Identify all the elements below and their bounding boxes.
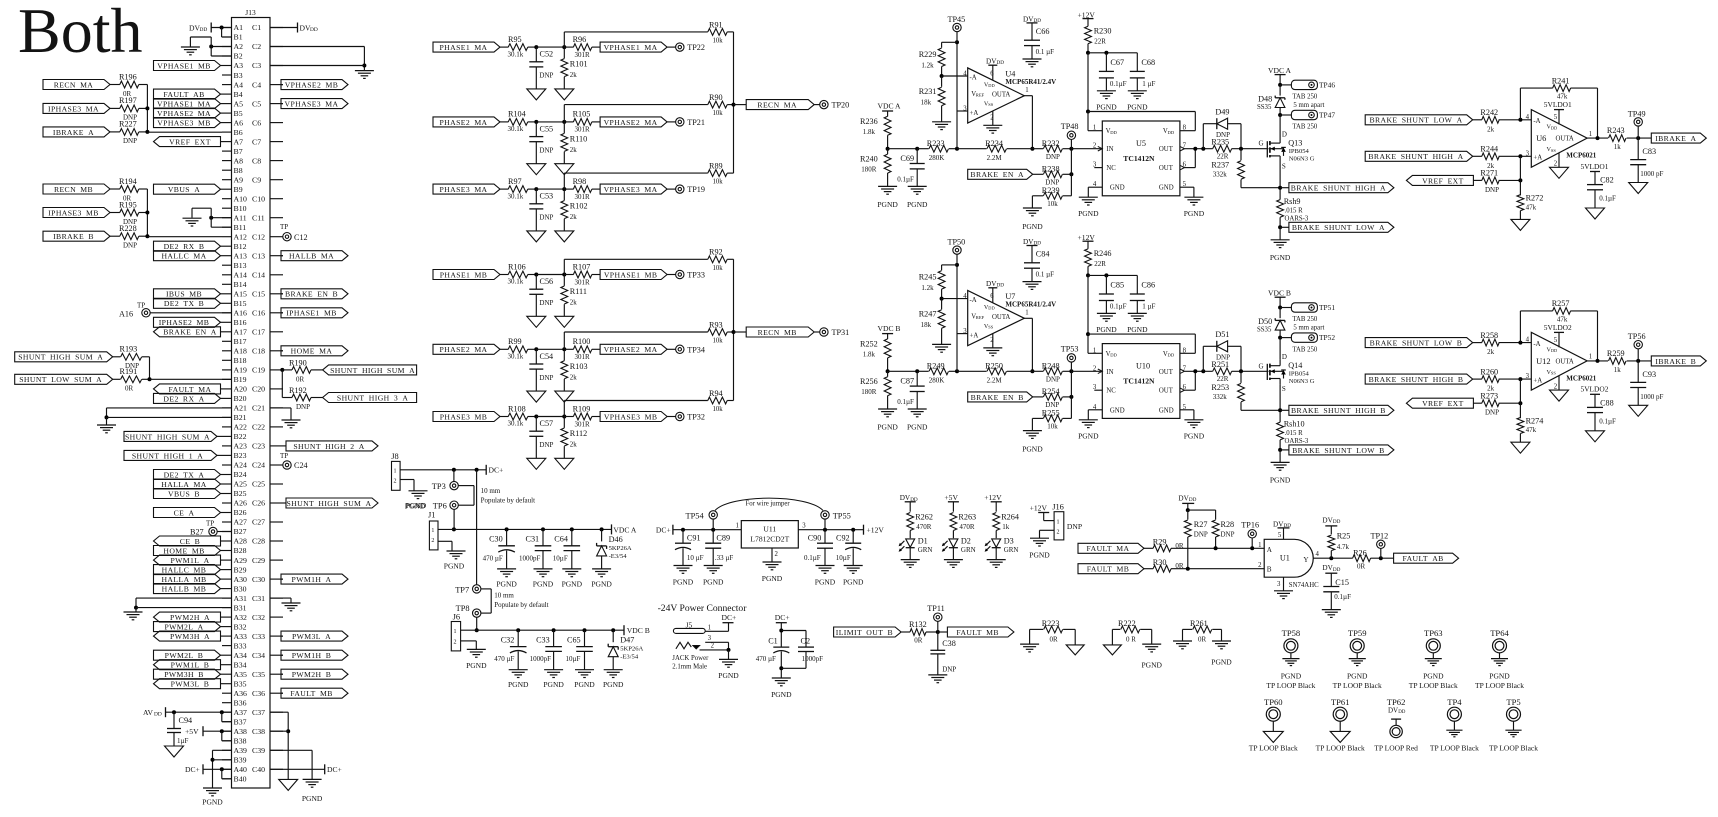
wire J16 pin2 to PGND bbox=[1040, 530, 1055, 538]
svg-text:R95: R95 bbox=[508, 35, 522, 44]
svg-text:C33: C33 bbox=[252, 632, 265, 641]
svg-text:RECN MB: RECN MB bbox=[54, 185, 93, 194]
svg-text:R191: R191 bbox=[120, 367, 138, 376]
net flag SHUNT HIGH 1 A at J13 B23 bbox=[124, 450, 222, 460]
svg-text:+12V: +12V bbox=[867, 526, 885, 535]
ground triangle under TP61 bbox=[1316, 731, 1365, 752]
wire R191 to B19 bbox=[150, 378, 232, 380]
wire TP3-TP6 bracket bbox=[458, 486, 474, 506]
svg-text:10 mm: 10 mm bbox=[481, 487, 501, 495]
ground PGND under C67 bbox=[1096, 91, 1117, 112]
svg-text:C10: C10 bbox=[252, 194, 265, 203]
svg-text:R234: R234 bbox=[985, 139, 1003, 148]
svg-text:R255: R255 bbox=[1042, 409, 1060, 418]
test point tab TP52 bbox=[1280, 333, 1335, 353]
svg-text:Populate by default: Populate by default bbox=[481, 496, 535, 504]
svg-text:PHASE1 MB: PHASE1 MB bbox=[440, 270, 488, 279]
net flag IPHASE2 MB at J13 B16 bbox=[154, 317, 223, 327]
svg-text:0R: 0R bbox=[1050, 635, 1059, 643]
svg-text:VDC A: VDC A bbox=[878, 101, 902, 110]
ground PGND at J8 bbox=[406, 491, 428, 510]
svg-text:IBRAKE B: IBRAKE B bbox=[53, 232, 94, 241]
svg-text:PGND: PGND bbox=[591, 579, 612, 588]
resistor R108 bbox=[500, 404, 536, 427]
svg-text:C87: C87 bbox=[900, 377, 914, 386]
svg-text:R27: R27 bbox=[1194, 520, 1208, 529]
test point TP8 bbox=[456, 604, 481, 618]
svg-text:DNP: DNP bbox=[1485, 186, 1499, 194]
wire TP8 to J6 rail bbox=[475, 617, 479, 632]
svg-text:0.1µF: 0.1µF bbox=[1110, 303, 1127, 311]
svg-text:DD: DD bbox=[988, 306, 994, 311]
ground triangle under TP60 bbox=[1249, 731, 1298, 752]
connector J5 jack bbox=[672, 620, 714, 670]
svg-text:A8: A8 bbox=[234, 156, 244, 165]
wire VDC junction bbox=[886, 147, 890, 151]
wire AVdd to A37/B37 bbox=[166, 710, 232, 722]
wire R91 input bbox=[564, 32, 708, 47]
net flag BRAKE SHUNT LOW A bbox=[1280, 222, 1394, 232]
wire TP48 node bbox=[1069, 147, 1102, 151]
ground PGND under C39 bbox=[302, 779, 323, 803]
net flag SHUNT HIGH SUM A at R190 bbox=[323, 365, 417, 375]
svg-text:C56: C56 bbox=[540, 277, 554, 286]
svg-text:A3: A3 bbox=[234, 61, 244, 70]
ground triangle under C55 bbox=[527, 164, 546, 175]
svg-text:PWM1L A: PWM1L A bbox=[170, 556, 209, 565]
svg-text:TP LOOP Black: TP LOOP Black bbox=[1249, 744, 1298, 753]
ground triangle under R102 bbox=[555, 231, 574, 242]
net flag FAULT MB bbox=[1078, 564, 1144, 574]
svg-text:VPHASE2 MA: VPHASE2 MA bbox=[604, 345, 658, 354]
svg-text:R227: R227 bbox=[119, 120, 137, 129]
svg-text:R99: R99 bbox=[508, 337, 522, 346]
diode D49 DNP bbox=[1203, 108, 1241, 149]
svg-text:-A: -A bbox=[970, 74, 977, 81]
wire C21 to ground bbox=[270, 408, 291, 420]
svg-text:B16: B16 bbox=[234, 318, 247, 327]
net flag HALLB MB at J13 B30 bbox=[154, 584, 223, 594]
net flag DE2 RX B at J13 B12 bbox=[154, 241, 223, 251]
svg-text:TP12: TP12 bbox=[1371, 532, 1389, 541]
svg-text:470 µF: 470 µF bbox=[494, 655, 514, 663]
svg-text:C28: C28 bbox=[252, 537, 265, 546]
svg-text:DD: DD bbox=[154, 712, 162, 718]
svg-text:PGND: PGND bbox=[762, 574, 783, 583]
svg-text:3: 3 bbox=[802, 522, 806, 529]
test point TP11 bbox=[927, 604, 944, 632]
svg-text:PGND: PGND bbox=[1270, 253, 1291, 262]
svg-text:IN: IN bbox=[1106, 369, 1113, 376]
wire U10 pin4 to PGND bbox=[1078, 410, 1102, 441]
ground triangle under R110 bbox=[555, 164, 574, 175]
svg-text:VPHASE1 MB: VPHASE1 MB bbox=[604, 270, 658, 279]
svg-text:Y: Y bbox=[1303, 556, 1309, 564]
svg-text:VPHASE1 MA: VPHASE1 MA bbox=[157, 100, 211, 109]
svg-text:30.1k: 30.1k bbox=[508, 278, 524, 286]
svg-text:B5: B5 bbox=[234, 109, 243, 118]
capacitor C82 0.1uF bbox=[1587, 176, 1616, 209]
capacitor C94 bbox=[167, 712, 192, 746]
svg-text:R231: R231 bbox=[919, 87, 937, 96]
svg-text:22R: 22R bbox=[1217, 375, 1229, 383]
net flag HALLB MA at J13 C13 bbox=[281, 251, 348, 261]
connector J13 bbox=[232, 8, 271, 788]
svg-text:SN74AHC: SN74AHC bbox=[1289, 582, 1319, 589]
test point TP12 bbox=[1371, 532, 1389, 559]
wire junction 1 bbox=[534, 347, 564, 351]
svg-text:5: 5 bbox=[1278, 532, 1282, 539]
svg-text:DD: DD bbox=[310, 27, 318, 33]
svg-text:SS: SS bbox=[1551, 371, 1556, 376]
svg-text:DNP: DNP bbox=[539, 146, 553, 154]
gate U1 SN74AHC bbox=[1258, 532, 1319, 589]
svg-text:PGND: PGND bbox=[1184, 209, 1205, 218]
svg-text:0.1µF: 0.1µF bbox=[1110, 80, 1127, 88]
svg-text:VREF EXT: VREF EXT bbox=[1422, 399, 1464, 408]
resistor R102 2k bbox=[561, 189, 588, 231]
ground PGND under TP59 bbox=[1333, 659, 1382, 690]
svg-text:PGND: PGND bbox=[202, 798, 223, 807]
test point TP6 bbox=[405, 501, 459, 511]
net flag FAULT AB at J13 B4 bbox=[154, 89, 223, 99]
resistor R260 2k bbox=[1473, 367, 1532, 392]
svg-text:TP LOOP Black: TP LOOP Black bbox=[1316, 744, 1365, 753]
ground triangle under R272 bbox=[1511, 219, 1530, 230]
svg-text:Q14: Q14 bbox=[1288, 361, 1302, 370]
svg-text:280K: 280K bbox=[929, 154, 945, 162]
net flag IBRAKE B bbox=[1651, 356, 1706, 366]
svg-text:C37: C37 bbox=[252, 708, 265, 717]
capacitor C57 bbox=[529, 417, 553, 459]
ground triangle under C83 bbox=[1629, 183, 1648, 194]
svg-text:IPHASE2 MB: IPHASE2 MB bbox=[159, 318, 210, 327]
ground under R223 left bbox=[1020, 644, 1039, 652]
power +5V for R263 bbox=[944, 493, 959, 512]
svg-text:DNP: DNP bbox=[1046, 376, 1060, 384]
svg-text:CE A: CE A bbox=[174, 508, 195, 517]
resistor R246 22R bbox=[1085, 249, 1112, 276]
wire sum bus A bbox=[732, 32, 736, 173]
svg-text:DNP: DNP bbox=[123, 242, 137, 250]
svg-text:0R: 0R bbox=[1198, 635, 1207, 643]
svg-text:-E3/54: -E3/54 bbox=[620, 654, 639, 661]
resistor R242 2k bbox=[1473, 108, 1532, 133]
net flag VPHASE2 MA at J13 B5 bbox=[154, 108, 223, 118]
ground PGND under C89 bbox=[703, 566, 724, 587]
svg-text:A32: A32 bbox=[234, 613, 248, 622]
svg-text:PGND: PGND bbox=[1141, 661, 1162, 670]
resistor R30 0R bbox=[1144, 558, 1265, 572]
ground triangle under C93 bbox=[1629, 405, 1648, 416]
svg-text:DD: DD bbox=[1398, 710, 1406, 715]
svg-text:A1: A1 bbox=[234, 23, 244, 32]
svg-text:FAULT MA: FAULT MA bbox=[169, 385, 212, 394]
net flag BRAKE SHUNT LOW B bbox=[1280, 445, 1394, 455]
ground under TP5 bbox=[1489, 730, 1538, 752]
svg-text:C67: C67 bbox=[1110, 58, 1124, 67]
svg-text:R262: R262 bbox=[915, 513, 933, 522]
svg-text:470 µF: 470 µF bbox=[756, 655, 776, 663]
net flag VREF EXT bbox=[1406, 175, 1473, 185]
svg-text:PWM1L B: PWM1L B bbox=[171, 661, 210, 670]
capacitor C92 10uF bbox=[836, 530, 861, 566]
svg-text:2k: 2k bbox=[570, 441, 578, 449]
svg-text:3: 3 bbox=[1526, 150, 1530, 157]
svg-text:1000 pF: 1000 pF bbox=[1640, 393, 1663, 401]
svg-text:A26: A26 bbox=[234, 499, 248, 508]
svg-text:B4: B4 bbox=[234, 90, 243, 99]
test point TP54 bbox=[686, 511, 718, 530]
resistor R223 0R bbox=[1030, 619, 1076, 645]
resistor R98 bbox=[564, 177, 600, 201]
svg-text:5: 5 bbox=[1554, 114, 1558, 121]
svg-text:B8: B8 bbox=[234, 166, 243, 175]
svg-text:U6: U6 bbox=[1536, 134, 1546, 143]
svg-text:B39: B39 bbox=[234, 756, 247, 765]
svg-text:R106: R106 bbox=[508, 262, 526, 271]
wire +12V node bbox=[1086, 273, 1137, 336]
svg-text:OARS-3: OARS-3 bbox=[1285, 216, 1309, 223]
svg-text:C85: C85 bbox=[1110, 281, 1124, 290]
wire +A input bbox=[957, 110, 968, 112]
ground PGND under J13 left bbox=[202, 788, 223, 807]
svg-text:0.1µF: 0.1µF bbox=[897, 398, 914, 406]
svg-text:REF: REF bbox=[976, 315, 985, 320]
svg-text:B13: B13 bbox=[234, 261, 247, 270]
svg-text:470R: 470R bbox=[959, 523, 975, 531]
svg-text:1.8k: 1.8k bbox=[863, 351, 876, 359]
test point TP55 bbox=[821, 511, 851, 530]
svg-text:B23: B23 bbox=[234, 451, 247, 460]
wire U5 pin8 bbox=[1088, 112, 1195, 131]
svg-text:R257: R257 bbox=[1552, 299, 1570, 308]
ground at J13 A31 bbox=[124, 612, 143, 620]
svg-text:FAULT MB: FAULT MB bbox=[956, 628, 999, 637]
svg-text:C31: C31 bbox=[526, 535, 540, 544]
svg-text:C39: C39 bbox=[252, 746, 265, 755]
resistor R111 2k bbox=[561, 275, 587, 317]
svg-text:5 mm apart: 5 mm apart bbox=[1293, 324, 1324, 331]
power 5VLDO2 at pin5 bbox=[1544, 323, 1572, 347]
ground triangle under C52 bbox=[527, 89, 546, 100]
svg-text:SS: SS bbox=[1551, 148, 1556, 153]
svg-text:C27: C27 bbox=[252, 518, 265, 527]
resistor R103 2k bbox=[561, 349, 588, 391]
resistor R250 2.2M bbox=[957, 362, 1032, 385]
svg-text:DV: DV bbox=[986, 280, 997, 288]
svg-text:TP LOOP Black: TP LOOP Black bbox=[1333, 681, 1382, 690]
svg-text:HALLA MA: HALLA MA bbox=[161, 480, 207, 489]
svg-text:R248: R248 bbox=[1042, 362, 1060, 371]
net flag DE2 TX A at J13 B24 bbox=[154, 470, 223, 480]
net flag RECN MA bbox=[43, 80, 110, 90]
svg-text:B6: B6 bbox=[234, 128, 243, 137]
svg-text:0 R: 0 R bbox=[1126, 635, 1136, 643]
svg-text:301R: 301R bbox=[575, 126, 591, 134]
svg-text:1000pF: 1000pF bbox=[530, 655, 552, 663]
power DVDD for C15 bbox=[1322, 564, 1340, 586]
svg-text:+A: +A bbox=[970, 110, 979, 117]
svg-text:A13: A13 bbox=[234, 251, 248, 260]
wire junction 2 bbox=[562, 415, 566, 419]
svg-text:VPHASE3 MB: VPHASE3 MB bbox=[604, 412, 658, 421]
svg-text:6: 6 bbox=[990, 293, 994, 300]
net flag VPHASE3 MA bbox=[600, 184, 667, 194]
svg-text:TP19: TP19 bbox=[687, 185, 705, 194]
svg-text:C89: C89 bbox=[716, 534, 730, 543]
svg-text:PHASE3 MB: PHASE3 MB bbox=[440, 412, 488, 421]
svg-text:PGND: PGND bbox=[603, 680, 624, 689]
svg-text:PGND: PGND bbox=[877, 200, 898, 209]
svg-text:DE2 TX B: DE2 TX B bbox=[164, 299, 204, 308]
svg-text:GRN: GRN bbox=[918, 546, 933, 554]
wire jumper arc bbox=[715, 498, 823, 510]
connector J8 bbox=[391, 452, 400, 490]
svg-text:301R: 301R bbox=[575, 51, 591, 59]
svg-text:47k: 47k bbox=[1526, 426, 1537, 434]
svg-text:BRAKE SHUNT LOW A: BRAKE SHUNT LOW A bbox=[1292, 223, 1385, 232]
svg-text:TP58: TP58 bbox=[1282, 628, 1301, 638]
svg-text:OUT: OUT bbox=[1159, 146, 1174, 153]
net flag HALLC MB at J13 B29 bbox=[154, 565, 223, 575]
resistor R261 0R bbox=[1183, 619, 1222, 643]
resistor R236 1.8k bbox=[860, 116, 891, 148]
svg-text:A2: A2 bbox=[234, 42, 244, 51]
svg-text:10k: 10k bbox=[713, 38, 724, 45]
svg-text:1: 1 bbox=[454, 629, 457, 635]
svg-text:R93: R93 bbox=[709, 320, 723, 329]
resistor R247 18k bbox=[919, 299, 945, 345]
svg-text:R196: R196 bbox=[119, 72, 137, 81]
svg-text:R192: R192 bbox=[289, 386, 307, 395]
svg-text:IPHASE1 MB: IPHASE1 MB bbox=[286, 309, 337, 318]
power DC+ at J8 bbox=[486, 465, 503, 475]
svg-text:PGND: PGND bbox=[1096, 103, 1117, 112]
test point TP16 bbox=[1241, 521, 1259, 551]
power +12V for R230 bbox=[1078, 11, 1096, 27]
svg-text:0R: 0R bbox=[125, 385, 134, 393]
svg-text:TP LOOP Black: TP LOOP Black bbox=[1409, 681, 1458, 690]
power VDC B bbox=[1268, 289, 1291, 310]
resistor R95 bbox=[500, 35, 536, 58]
svg-text:C57: C57 bbox=[540, 419, 554, 428]
net flag PWM1L A at J13 A29 bbox=[154, 555, 223, 565]
svg-text:DC+: DC+ bbox=[185, 765, 200, 774]
wire DC+ to A40/B40 bbox=[203, 767, 232, 779]
svg-text:PGND: PGND bbox=[815, 578, 836, 587]
net flag VREF EXT bbox=[1406, 398, 1473, 408]
svg-text:TP51: TP51 bbox=[1319, 303, 1335, 312]
svg-text:C1: C1 bbox=[768, 637, 778, 646]
svg-text:R30: R30 bbox=[1153, 558, 1167, 567]
svg-text:DNP: DNP bbox=[539, 374, 553, 382]
ground PGND under D46 bbox=[591, 569, 612, 589]
net flag PWM2H A at J13 A32 bbox=[154, 612, 223, 622]
ground at U1 pin3 bbox=[1274, 577, 1293, 598]
svg-text:10k: 10k bbox=[1047, 200, 1058, 208]
svg-text:B28: B28 bbox=[234, 546, 247, 555]
net flag IBUS MB at J13 A15 bbox=[154, 289, 223, 299]
svg-text:DC+: DC+ bbox=[656, 526, 671, 535]
resistor R273 DNP bbox=[1473, 392, 1522, 417]
resistor R28 DNP bbox=[1212, 510, 1234, 550]
svg-text:C23: C23 bbox=[252, 442, 265, 451]
svg-text:0R: 0R bbox=[296, 375, 305, 383]
net flag VPHASE1 MA bbox=[600, 42, 667, 52]
svg-text:18k: 18k bbox=[921, 321, 932, 329]
svg-text:A38: A38 bbox=[234, 727, 248, 736]
transistor Q13 bbox=[1259, 130, 1315, 170]
svg-text:DC+: DC+ bbox=[775, 613, 790, 622]
svg-text:A35: A35 bbox=[234, 670, 248, 679]
wire A21/B21 to ground bbox=[105, 408, 232, 425]
svg-text:C52: C52 bbox=[540, 50, 554, 59]
svg-text:2.2M: 2.2M bbox=[987, 376, 1003, 384]
wire R238/R239 bus bbox=[1070, 149, 1072, 196]
svg-text:R102: R102 bbox=[570, 202, 588, 211]
svg-text:10 mm: 10 mm bbox=[494, 592, 514, 600]
IC U10 TC1412N bbox=[1093, 344, 1187, 419]
svg-text:A20: A20 bbox=[234, 385, 248, 394]
wire VDC junction bbox=[886, 369, 890, 373]
wire input bus bbox=[1519, 156, 1521, 195]
resistor R100 bbox=[564, 337, 600, 361]
svg-text:PWM1H B: PWM1H B bbox=[292, 651, 332, 660]
svg-text:180R: 180R bbox=[861, 388, 877, 396]
wire C37/C38 to ground bbox=[270, 712, 290, 779]
net flag PHASE1 MB bbox=[433, 270, 500, 280]
LED D2 GRN bbox=[942, 537, 976, 560]
svg-text:R260: R260 bbox=[1480, 367, 1498, 376]
resistor R193 bbox=[113, 345, 150, 380]
svg-text:C53: C53 bbox=[540, 192, 554, 201]
svg-text:5VLDO2: 5VLDO2 bbox=[1581, 385, 1609, 394]
svg-text:B34: B34 bbox=[234, 660, 247, 669]
svg-text:470 µF: 470 µF bbox=[483, 554, 503, 562]
svg-text:301R: 301R bbox=[575, 353, 591, 361]
svg-text:PGND: PGND bbox=[907, 200, 928, 209]
svg-text:R247: R247 bbox=[919, 310, 937, 319]
resistor R109 bbox=[564, 404, 600, 428]
ground triangle under C53 bbox=[527, 231, 546, 242]
resistor R255 10k bbox=[1032, 409, 1071, 431]
capacitor C55 bbox=[529, 122, 553, 164]
capacitor C1 470uF bbox=[756, 637, 790, 678]
resistor R249 280K bbox=[917, 362, 957, 385]
svg-text:R26: R26 bbox=[1353, 548, 1367, 557]
svg-text:22R: 22R bbox=[1094, 38, 1106, 46]
svg-text:TAB 250: TAB 250 bbox=[1292, 124, 1318, 131]
svg-text:U11: U11 bbox=[763, 525, 776, 534]
svg-text:B25: B25 bbox=[234, 489, 247, 498]
ground at U6 pin2 bbox=[1550, 153, 1569, 178]
wire drain bbox=[1279, 115, 1281, 137]
op-amp U7 MCP65R41 bbox=[963, 291, 1056, 346]
wire U10 pin3 stub bbox=[1094, 389, 1102, 391]
svg-text:C7: C7 bbox=[252, 137, 261, 146]
power DVDD for C84 bbox=[1023, 238, 1041, 263]
ground under C15 bbox=[1322, 610, 1341, 618]
svg-text:C65: C65 bbox=[567, 636, 581, 645]
svg-text:TP59: TP59 bbox=[1348, 628, 1367, 638]
ground PGND under C30 bbox=[496, 569, 517, 589]
svg-text:2: 2 bbox=[394, 479, 397, 485]
svg-text:R110: R110 bbox=[570, 134, 587, 143]
wire sum bus B bbox=[732, 259, 736, 400]
net flag SHUNT HIGH SUM A at J13 B22 bbox=[124, 431, 222, 441]
svg-text:0R: 0R bbox=[914, 637, 923, 645]
